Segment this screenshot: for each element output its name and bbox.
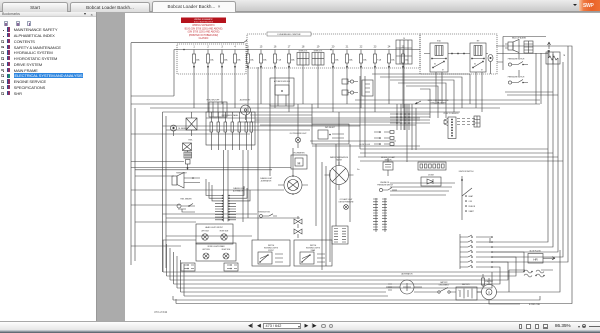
svg-text:LEFT SIDE: LEFT SIDE [202, 249, 210, 251]
wire: collector bus 4/5/6 [131, 104, 416, 150]
svg-text:20A: 20A [196, 59, 200, 62]
fuse block 1-5 enclosure (dashed) [177, 44, 246, 74]
module: fuel pump [362, 80, 373, 96]
fuse 17 (20A) [288, 45, 296, 67]
sensor: fuel level sender [177, 199, 195, 213]
wire: mid horizontal bundle [358, 149, 563, 161]
wire: harness to ignition [390, 183, 455, 195]
svg-text:S: S [488, 291, 490, 295]
svg-text:GLOW PLUGS: GLOW PLUGS [359, 144, 370, 146]
svg-text:Dx: Dx [357, 169, 359, 171]
wire label B-2382-ORB [529, 304, 541, 306]
fuse 5 (15A) [247, 45, 255, 67]
wire: center verticals [224, 76, 405, 222]
sidebar [0, 12, 97, 321]
fuse 25 (10A) [402, 45, 410, 67]
svg-text:(S/N 5709 11001 AND ABOVE): (S/N 5709 11001 AND ABOVE) [188, 31, 220, 34]
wire: outer loop top [496, 37, 568, 96]
svg-text:24: 24 [388, 45, 391, 48]
connector: left work light plug [181, 263, 195, 271]
switch: working lights front [252, 240, 290, 266]
svg-text:15: 15 [260, 45, 263, 48]
svg-text:(PRINTED OCTOBER 2002): (PRINTED OCTOBER 2002) [189, 35, 219, 37]
svg-text:CHARGE LIGHT: CHARGE LIGHT [260, 177, 272, 180]
resistor module (right) [546, 52, 566, 64]
svg-text:RUN/ON: RUN/ON [469, 206, 476, 208]
svg-text:ENGINE OIL: ENGINE OIL [380, 182, 389, 184]
sensor: engine coolant temperature [381, 156, 395, 176]
svg-text:22: 22 [360, 45, 363, 48]
note leader arrow [415, 101, 421, 104]
status bar [0, 321, 600, 331]
page footer text [154, 310, 168, 314]
svg-text:16: 16 [274, 45, 277, 48]
svg-text:15A: 15A [335, 59, 339, 62]
svg-text:B100 (S/N 5708 11001 AND ABOVE: B100 (S/N 5708 11001 AND ABOVE) [185, 27, 223, 30]
svg-text:25A: 25A [237, 59, 241, 62]
wire: collector bus 1 [131, 103, 540, 105]
relay enclosure (dashed, E10/E9) [420, 34, 497, 74]
document page [125, 13, 600, 321]
svg-text:WORK LIGHTS REAR: WORK LIGHTS REAR [208, 245, 226, 248]
battery [456, 283, 477, 300]
svg-text:15A: 15A [250, 59, 254, 62]
svg-text:FUEL SHUTOFF: FUEL SHUTOFF [207, 100, 220, 102]
starter motor [477, 278, 497, 300]
svg-text:SWITCH: SWITCH [310, 245, 317, 247]
svg-text:HR: HR [533, 258, 538, 262]
svg-text:86: 86 [434, 64, 436, 66]
fuse 24 (15A) [388, 45, 396, 67]
diode module [418, 162, 446, 186]
relay E10 [430, 41, 448, 105]
svg-text:23: 23 [374, 45, 377, 48]
module: instrument cluster resistors [206, 112, 255, 150]
wire: main fuse bus [174, 49, 420, 50]
sensor: oil level sender [171, 125, 189, 136]
switch: battery disconnect [434, 281, 454, 293]
svg-text:RIGHT SIDE: RIGHT SIDE [220, 231, 229, 233]
svg-text:WORKING LIGHTS: WORKING LIGHTS [264, 247, 278, 249]
fuse 16 (7.5A) [274, 45, 282, 67]
svg-text:10A: 10A [405, 59, 409, 62]
label: charge light alternator [233, 187, 245, 192]
solenoid: fuel solenoid stack [183, 140, 193, 171]
lamp: coolant level light [339, 198, 354, 209]
switch: engine oil pressure [377, 182, 397, 192]
wire: bottom routing loops [163, 252, 524, 288]
fuse/relay center enclosure (dashed) [247, 34, 420, 68]
connector: alarm plug [524, 41, 533, 53]
svg-text:15A: 15A [210, 59, 214, 62]
wire: upper-right step bundle [372, 74, 470, 118]
svg-text:CLASSIC: CLASSIC [199, 37, 209, 40]
svg-text:OIL SENSOR: OIL SENSOR [178, 128, 189, 130]
title banner WIRING SCHEMATIC [181, 18, 226, 24]
wire: collector bus 2 [150, 107, 500, 109]
svg-text:IGNITION SWITCH: IGNITION SWITCH [459, 171, 474, 173]
svg-text:BATTERY: BATTERY [462, 283, 471, 286]
svg-text:4: 4 [234, 45, 236, 48]
title text block [185, 24, 223, 40]
svg-text:PRESSURE SWITCH: PRESSURE SWITCH [508, 77, 525, 79]
svg-text:E9: E9 [477, 41, 480, 43]
svg-text:PLUG TO SENSOR: PLUG TO SENSOR [444, 113, 460, 115]
wire: loop left risers [163, 240, 184, 296]
svg-text:ACTUATOR MODULE: ACTUATOR MODULE [274, 80, 290, 83]
wire: center horizontals [206, 115, 420, 122]
wire: alarm area feeds [541, 42, 551, 104]
lamp: oil pressure light [290, 133, 307, 148]
tab bar [0, 0, 600, 12]
svg-text:RIGHT SIDE: RIGHT SIDE [222, 249, 231, 251]
svg-text:START: START [469, 210, 474, 213]
relay: interlock relay block 19 [312, 45, 324, 66]
svg-text:ACCESSORY: ACCESSORY [240, 99, 251, 102]
svg-text:87: 87 [442, 70, 444, 72]
meter: hourmeter [291, 153, 307, 170]
alternator [386, 273, 422, 295]
relay: interlock fuse block 18 [297, 45, 309, 66]
svg-text:4WD SELECT: 4WD SELECT [325, 127, 335, 129]
junction matrix: glow plug wiring [390, 104, 430, 130]
svg-text:19: 19 [317, 45, 320, 48]
svg-text:HOURMETER: HOURMETER [294, 153, 306, 155]
relay E9 [470, 41, 486, 113]
wire: left component feeders [131, 162, 252, 247]
svg-text:PRESSURE SWITCH: PRESSURE SWITCH [377, 184, 393, 186]
svg-text:20: 20 [332, 45, 335, 48]
wire: center drops [258, 67, 350, 240]
switch: ignition terminal contacts [460, 234, 493, 269]
fuse: starter feed link [482, 274, 485, 287]
pressure switch (lower) [508, 77, 528, 85]
wire: starter bus riser [509, 270, 553, 292]
alarm: back-up alarm speaker [505, 37, 526, 53]
svg-text:SWITCH: SWITCH [268, 245, 275, 247]
module: aux control box [312, 124, 349, 144]
pressure switch (upper) [508, 59, 528, 67]
svg-text:HEAT: HEAT [469, 195, 473, 198]
svg-text:FUEL: FUEL [188, 140, 192, 142]
svg-text:PRESSURE SWITCH: PRESSURE SWITCH [508, 59, 525, 61]
svg-text:DISCONNECT: DISCONNECT [439, 284, 450, 286]
svg-text:20A: 20A [349, 59, 353, 62]
outlet: accessory outlet [240, 99, 251, 121]
note: wire schematic note [428, 100, 449, 104]
svg-text:COOLANT LIGHT: COOLANT LIGHT [340, 198, 353, 201]
wire: battery circuit wires [181, 250, 561, 304]
fuse 20 (15A) [332, 45, 340, 67]
svg-text:HEAD LIGHTS FRONT: HEAD LIGHTS FRONT [205, 226, 223, 229]
svg-text:BATTERY: BATTERY [440, 281, 448, 284]
svg-text:FRONT: FRONT [268, 250, 274, 252]
wire: mid band horizontals [255, 100, 540, 146]
wire: fuse drop comb [194, 67, 404, 112]
connector: plug to sensor harness [444, 113, 480, 139]
switch: horn button [258, 212, 277, 218]
lamps: work lights rear [196, 243, 236, 261]
svg-text:E10: E10 [437, 41, 441, 43]
svg-text:INSTRUMENT PANEL: INSTRUMENT PANEL [222, 114, 239, 117]
fuse 4 (25A) [234, 45, 242, 67]
svg-text:5: 5 [247, 45, 249, 48]
svg-text:7B: 7B [563, 55, 566, 57]
connector: glow plug feed [359, 131, 394, 146]
svg-text:STARTER: STARTER [485, 280, 494, 283]
wire: harness corner routes [206, 179, 250, 201]
wire: gauge feeders [293, 104, 339, 270]
fuse 23 (7.5A) [374, 45, 382, 67]
svg-text:20A: 20A [291, 59, 295, 62]
svg-text:LEFT SIDE: LEFT SIDE [201, 231, 209, 233]
wire: upper feed bus [131, 40, 247, 104]
connector: right work light plug [224, 263, 238, 271]
svg-text:473 of 642: 473 of 642 [154, 310, 168, 314]
wire: left bus risers [131, 50, 174, 273]
svg-text:7.5A: 7.5A [377, 59, 382, 62]
svg-text:18: 18 [302, 45, 305, 48]
svg-text:FUSE/RELAY CENTER: FUSE/RELAY CENTER [277, 33, 300, 36]
svg-text:OFF: OFF [469, 201, 472, 203]
svg-text:15A: 15A [363, 59, 367, 62]
lamps: head lights front [196, 224, 233, 244]
fuse 1 (20A) [193, 45, 201, 67]
label FUSE/RELAY CENTER [267, 32, 311, 36]
wire: relay link [424, 53, 488, 54]
svg-text:2: 2 [207, 45, 209, 48]
svg-text:15A: 15A [391, 59, 395, 62]
connector: relay output plug [488, 55, 493, 75]
fuse 22 (15A) [360, 45, 368, 67]
fuse 21 (20A) [346, 45, 354, 67]
wire: lowest routing loops [173, 46, 572, 304]
svg-text:B-2382-ORB: B-2382-ORB [529, 304, 541, 306]
svg-text:WIRING SCHEMATIC: WIRING SCHEMATIC [192, 24, 215, 27]
svg-text:25A: 25A [263, 59, 267, 62]
wire: collector bus 3 [163, 111, 461, 113]
connector: main harness C1/C2 [215, 193, 236, 222]
gauge: fuel and temperature gauge [260, 176, 308, 195]
switch: ignition key switch [459, 171, 476, 220]
svg-text:87: 87 [481, 70, 483, 72]
heater: glow plugs (HR) [528, 251, 555, 264]
switch: working lights rear [294, 240, 332, 266]
svg-text:21: 21 [346, 45, 349, 48]
valve: control valve 1 [294, 216, 302, 228]
svg-text:FUEL SENDER: FUEL SENDER [180, 199, 192, 201]
connector: dash harness pins [332, 226, 348, 244]
fuse 2 (15A) [207, 45, 215, 67]
connector: engine harness pins [373, 198, 387, 232]
svg-text:DIODE: DIODE [428, 175, 434, 177]
svg-text:17: 17 [288, 45, 291, 48]
svg-text:ALTERNATOR: ALTERNATOR [401, 273, 413, 276]
svg-text:M: M [281, 89, 284, 93]
horn: front horn [172, 173, 200, 189]
svg-text:86: 86 [474, 64, 476, 66]
svg-text:WIRING SCHEMATIC: WIRING SCHEMATIC [194, 18, 213, 21]
wire: right vertical bus [492, 46, 568, 262]
svg-text:20A: 20A [224, 59, 228, 62]
relay contacts: hold/pull coils [342, 79, 358, 95]
module: flasher / accessory box [270, 78, 294, 106]
svg-text:WORKING LIGHTS: WORKING LIGHTS [306, 247, 320, 249]
fuse 15 (25A) [260, 45, 268, 67]
relay: glow plug relay [396, 38, 412, 67]
gauge: water temperature gauge [325, 156, 360, 190]
svg-text:ON ALL MACHINES: ON ALL MACHINES [430, 101, 446, 104]
svg-text:HORN BUTTON: HORN BUTTON [258, 212, 271, 214]
svg-text:7.5A: 7.5A [277, 59, 282, 62]
fuse 3 (20A) [221, 45, 229, 67]
solenoid: fuel shutoff [207, 100, 227, 118]
svg-text:1: 1 [193, 45, 195, 48]
lamp: courtesy light [186, 112, 197, 136]
valve: control valve 2 [294, 229, 302, 238]
svg-text:H: H [298, 161, 301, 166]
svg-text:USE W/ PRESSURE: USE W/ PRESSURE [339, 201, 354, 203]
svg-text:3: 3 [221, 45, 223, 48]
wire: right area verticals [407, 52, 553, 243]
wire: gauge feeders (left) [131, 168, 300, 219]
fusible links [524, 270, 545, 277]
svg-text:BACK-UP ALARM: BACK-UP ALARM [512, 37, 526, 40]
